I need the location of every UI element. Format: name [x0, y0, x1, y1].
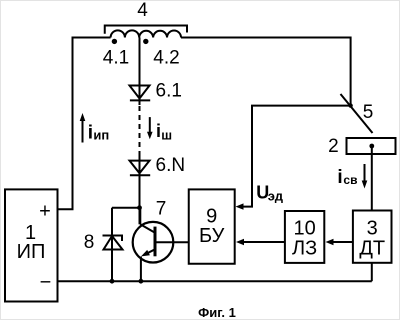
svg-text:+: +: [39, 200, 51, 222]
svg-text:7: 7: [156, 199, 167, 220]
svg-text:ДТ: ДТ: [359, 237, 385, 259]
svg-text:ш: ш: [161, 128, 172, 143]
svg-text:эд: эд: [268, 188, 284, 203]
svg-text:i: i: [88, 123, 93, 144]
svg-text:5: 5: [363, 102, 374, 123]
svg-text:БУ: БУ: [199, 225, 225, 247]
svg-text:i: i: [337, 167, 342, 188]
svg-text:4.1: 4.1: [103, 48, 129, 69]
svg-text:Фиг. 1: Фиг. 1: [198, 305, 236, 320]
svg-text:10: 10: [293, 217, 315, 239]
svg-text:i: i: [156, 121, 161, 141]
svg-text:4: 4: [137, 0, 148, 21]
svg-text:4.2: 4.2: [153, 48, 179, 69]
svg-text:6.N: 6.N: [156, 155, 186, 176]
svg-text:8: 8: [84, 232, 95, 253]
svg-text:ИП: ИП: [17, 241, 46, 263]
svg-text:2: 2: [328, 136, 339, 157]
svg-text:св: св: [343, 173, 357, 187]
svg-text:6.1: 6.1: [156, 81, 182, 102]
svg-text:9: 9: [206, 206, 217, 228]
svg-text:ип: ип: [93, 128, 109, 143]
svg-text:−: −: [40, 271, 52, 293]
svg-text:3: 3: [367, 217, 378, 239]
svg-text:ЛЗ: ЛЗ: [292, 237, 317, 259]
